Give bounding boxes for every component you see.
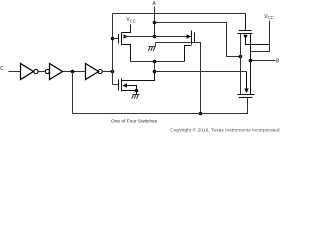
M5 gate bar: [239, 97, 253, 99]
VCC label left: [126, 17, 135, 23]
wire B segment right: [251, 60, 276, 62]
wire U1 to U2: [39, 71, 46, 73]
M5 channel bar: [238, 94, 255, 96]
svg-text:A: A: [153, 1, 157, 7]
wire vertical control bus x112.5: [112, 14, 114, 85]
wire top control line1: [113, 13, 246, 15]
node junction line2 bigvert: [239, 55, 243, 59]
M2 channel bar: [121, 79, 123, 92]
M2 bulk arrow: [123, 83, 128, 87]
bubble U2 input: [45, 69, 49, 73]
node junction rail: [199, 112, 203, 116]
node junction B right: [249, 59, 253, 63]
transistor M4: [238, 14, 270, 95]
wire U3 out to node: [103, 71, 113, 73]
M1 bulk arrow: [124, 34, 129, 38]
transistor M2: [119, 72, 155, 95]
node junction B left: [153, 60, 157, 64]
wire M2 gate feed: [113, 84, 119, 86]
wire link Bline to midline: [154, 62, 156, 72]
M2 drain stub up-right: [122, 72, 155, 81]
wire big vertical M4 left to M5 left: [240, 34, 242, 95]
M3 gate bar: [194, 33, 196, 43]
VCC label right: [264, 14, 273, 20]
node junction U3 out: [111, 70, 115, 74]
svg-text:Copyright © 2016, Texas Instru: Copyright © 2016, Texas Instruments Inco…: [170, 126, 280, 133]
wire M1 gate feed: [113, 38, 119, 40]
M4 bulk arrow: [243, 35, 247, 40]
svg-text:CC: CC: [130, 19, 136, 24]
M1 gate bar: [118, 34, 120, 44]
wire line3 A-net M1 to M3: [124, 36, 192, 38]
transistor M3: [185, 31, 195, 62]
M1 drain stub to VCC: [122, 25, 131, 33]
wire line2 A to right: [155, 23, 241, 57]
transistor M5: [238, 89, 255, 98]
node junction M1 gate: [111, 37, 115, 41]
M5 bulk arrow: [244, 89, 248, 94]
M1 channel bar: [121, 33, 123, 46]
M4 gate bar: [239, 30, 252, 32]
M3 bulk arrow: [187, 34, 192, 38]
M2 source stub: [122, 91, 137, 95]
bubble U3 output: [98, 69, 102, 73]
svg-text:CC: CC: [268, 15, 274, 20]
svg-text:B: B: [276, 59, 280, 65]
wire A stem: [154, 7, 156, 37]
M2 gate bar: [118, 80, 120, 91]
M3 source stub down to B line: [185, 46, 192, 62]
transistor M1: [119, 25, 131, 62]
node junction U2 out: [71, 70, 75, 74]
M4 bulk wire to VCC stem: [246, 39, 270, 45]
wire M5 bulk drop: [246, 72, 248, 89]
bubble U1 output: [34, 69, 38, 73]
node junction A line3: [153, 35, 157, 39]
M3 channel bar: [191, 31, 193, 45]
wire B line: [131, 61, 185, 63]
inverter U2: [50, 64, 63, 80]
M1 source stub down: [122, 45, 131, 62]
wire U2 output to U3: [63, 71, 86, 73]
ground G1: [148, 43, 155, 52]
svg-text:C: C: [0, 66, 4, 72]
M4 right stub / B drop: [250, 34, 252, 95]
inverter U3: [86, 64, 99, 80]
node junction A line2: [153, 21, 157, 25]
wire VCC right stem: [251, 21, 270, 52]
ground G2: [132, 95, 140, 99]
M4 gate stem: [245, 14, 247, 31]
wire tap down from U2 output: [72, 72, 74, 114]
M2 bulk tie wire: [127, 86, 137, 91]
node junction midline: [153, 70, 157, 74]
inverter U1: [21, 64, 34, 80]
wire bottom rail: [73, 98, 248, 114]
svg-text:One of Four Switches: One of Four Switches: [111, 119, 158, 125]
node junction M2 source bulk: [135, 89, 139, 93]
wire ground line4 to M3 gate and rail drop: [156, 43, 201, 114]
wire mid line y71.5: [155, 71, 247, 73]
wire C input: [9, 71, 21, 73]
M4 channel bar: [238, 33, 253, 35]
